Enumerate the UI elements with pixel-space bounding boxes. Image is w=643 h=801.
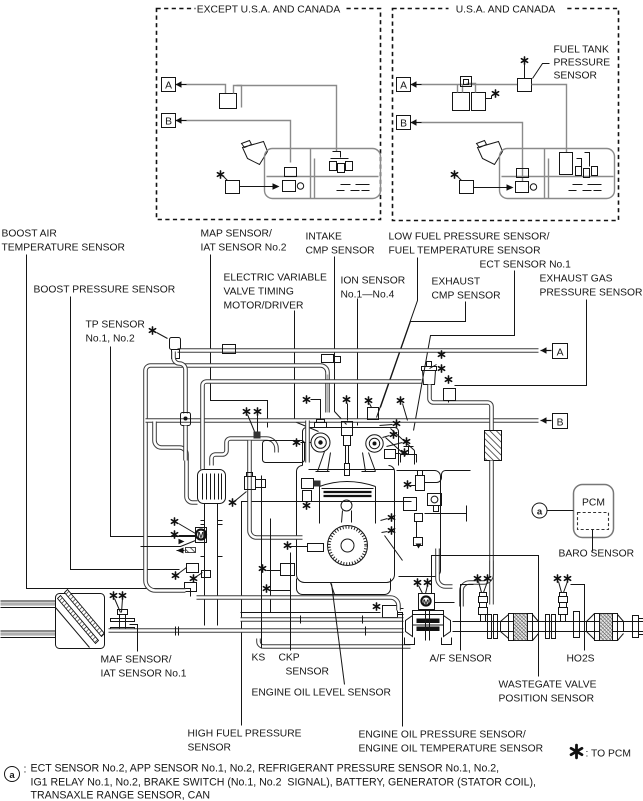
leader: electric VVT motor [295, 311, 319, 432]
oil pan [297, 579, 391, 595]
warm up catalytic converter (WU-TWC) [501, 615, 509, 639]
svg-text:INTAKE: INTAKE [306, 232, 343, 243]
svg-text:CMP SENSOR: CMP SENSOR [306, 246, 375, 257]
arrow at A [541, 347, 552, 353]
vacuum loop pipe around engine [203, 382, 422, 470]
svg-text:IAT SENSOR No.1: IAT SENSOR No.1 [101, 669, 187, 680]
engine oil pressure/temp sensor [373, 603, 379, 610]
arrow at B [541, 417, 552, 423]
node a circle [532, 503, 547, 518]
svg-text:B: B [400, 119, 407, 130]
leader: MAF sensor [130, 625, 138, 652]
svg-text:BOOST AIR: BOOST AIR [2, 229, 57, 240]
wastegate valve position sensor leader [432, 556, 539, 677]
charge pipe from manifold down to block [250, 441, 303, 538]
svg-text:BOOST PRESSURE SENSOR: BOOST PRESSURE SENSOR [34, 285, 176, 296]
arrow into B [176, 117, 187, 123]
svg-text:HO2S: HO2S [567, 654, 595, 665]
fuel filler neck (left box) [242, 141, 268, 165]
svg-text:SENSOR: SENSOR [286, 667, 330, 678]
intake pipe upper run [241, 617, 404, 622]
svg-text:M: M [423, 598, 429, 607]
intake stepped pipe from intercooler to manifold [212, 439, 277, 466]
ignition coil between cams [342, 422, 353, 436]
PCM module [574, 485, 614, 538]
intercooler [198, 470, 226, 504]
leader: exhaust gas pressure sensor [455, 300, 587, 386]
node box A [553, 344, 568, 359]
leader: CKP sensor [290, 553, 292, 651]
fitting bracket on A line [322, 355, 334, 363]
leader: ion sensor [357, 299, 359, 426]
canister vent hook [234, 86, 242, 108]
svg-text:ENGINE OIL TEMPERATURE SENSOR: ENGINE OIL TEMPERATURE SENSOR [359, 744, 544, 755]
vacuum hose under engine [241, 612, 381, 614]
svg-text:TEMPERATURE SENSOR: TEMPERATURE SENSOR [2, 243, 125, 254]
leader: engine oil level sensor [332, 584, 345, 685]
pipe from canister down to hatched block [430, 385, 492, 431]
svg-text:ELECTRIC VARIABLE: ELECTRIC VARIABLE [224, 273, 328, 284]
svg-text:IAT SENSOR No.2: IAT SENSOR No.2 [201, 243, 287, 254]
purge valve on A line [223, 345, 236, 354]
TP asterisk connector [149, 327, 155, 334]
svg-text:B: B [557, 418, 564, 429]
throttle asterisk cluster [171, 518, 177, 525]
knock sensor box [303, 491, 312, 502]
pressure sensor box on pipe [445, 376, 451, 383]
turbocharger housing [413, 611, 444, 615]
svg-text:CKP: CKP [279, 653, 300, 664]
leader: intake CMP sensor [335, 257, 347, 425]
purge pipe from canister to A [187, 85, 226, 94]
exhaust pipe after turbo [453, 622, 643, 632]
fuel tank pressure sensor on pipe [518, 79, 532, 92]
purge pipe to A [422, 84, 518, 86]
canister vent * valve [486, 96, 492, 99]
fuel level dashes (left box) [337, 185, 370, 191]
vac hose by block [270, 519, 272, 613]
MAP sensor body on charge pipe [245, 473, 266, 490]
main catalytic converter (TWC) [587, 614, 595, 640]
muffler inlet flange [633, 616, 639, 638]
charge air pipe to compressor [197, 598, 399, 611]
svg-text:CMP SENSOR: CMP SENSOR [432, 291, 501, 302]
leader: TP sensor [111, 347, 196, 537]
engine head cover [303, 428, 399, 466]
fuel rail components right of head [401, 447, 417, 463]
inline fitting on TP hose [181, 413, 191, 426]
to PCM legend [571, 745, 582, 758]
svg-text:EXCEPT U.S.A. AND CANADA: EXCEPT U.S.A. AND CANADA [197, 5, 341, 16]
cam cap stub and asterisk marks above head [315, 420, 327, 428]
svg-text:EXHAUST: EXHAUST [432, 277, 481, 288]
leader: high fuel pressure sensor [242, 502, 412, 726]
flange pair 1 [488, 615, 492, 639]
clean air pipe from MAF to turbo [109, 628, 404, 633]
A/F sensor leader [461, 585, 474, 651]
svg-text:a: a [537, 507, 543, 518]
svg-text:PRESSURE SENSOR: PRESSURE SENSOR [540, 288, 643, 299]
fresh air duct [1, 601, 56, 638]
flange pair 2 [546, 615, 550, 639]
dashed enclosure: U.S.A. AND CANADA [393, 9, 619, 221]
boost air temp sensor fitting [185, 583, 197, 592]
pipe from sensor to tank pump [532, 85, 567, 153]
fuel feed pipe from pump [425, 471, 471, 483]
fuel pump module (left box) [285, 168, 297, 177]
svg-text:ENGINE OIL PRESSURE SENSOR/: ENGINE OIL PRESSURE SENSOR/ [359, 730, 526, 741]
svg-text:TP SENSOR: TP SENSOR [86, 320, 145, 331]
charge pipe elbow to boost air temp sensor [146, 581, 186, 591]
oil filter fitting on block left [302, 479, 314, 489]
svg-text:A: A [400, 81, 407, 92]
high pressure fuel pump on engine [404, 481, 410, 488]
node B (left box) [162, 114, 176, 128]
svg-text:ECT SENSOR No.1: ECT SENSOR No.1 [480, 260, 572, 271]
air cleaner element diagonal strips [58, 596, 99, 644]
svg-text:a: a [9, 770, 15, 781]
leader: boost pressure sensor [71, 297, 180, 570]
node box B [553, 414, 568, 429]
svg-text:ION SENSOR: ION SENSOR [341, 276, 406, 287]
svg-text:WASTEGATE VALVE: WASTEGATE VALVE [499, 680, 597, 691]
second fitting on throttle tube [190, 575, 196, 582]
throttle neck below intercooler [201, 504, 223, 626]
svg-text:ECT SENSOR No.2, APP SENSOR No: ECT SENSOR No.2, APP SENSOR No.1, No.2, … [31, 763, 500, 775]
BARO sensor dashed box inside PCM [578, 513, 609, 530]
fuel tank (left box) [265, 149, 381, 199]
throttle position rack [177, 550, 185, 552]
engine right housing [397, 471, 441, 577]
leader: MAP sensor [211, 255, 268, 428]
hatched muffler block [485, 431, 502, 461]
to-PCM sensor box (right box) [451, 171, 457, 178]
pipe below hatched block to turbo [489, 461, 494, 605]
svg-text:MAP SENSOR/: MAP SENSOR/ [201, 229, 272, 240]
head right wedge housing [386, 429, 415, 465]
valves [316, 452, 376, 472]
wastegate link line [435, 602, 455, 604]
crankshaft ring gear [328, 526, 368, 566]
svg-text:SENSOR: SENSOR [554, 71, 598, 82]
TP hose down [174, 352, 186, 414]
exhaust cam sprocket [366, 435, 383, 452]
fuel vapor filter canister [422, 362, 437, 385]
leader: exhaust CMP sensor [381, 302, 466, 408]
boost pressure sensor box [172, 572, 178, 579]
node A (left box) [162, 78, 176, 92]
leader: ECT sensor No.1 [414, 271, 515, 431]
turbine wheels (dark) [417, 619, 440, 624]
fuel pulsation damper [428, 494, 442, 506]
svg-text:B: B [165, 117, 172, 128]
leader: engine oil pressure sensor [398, 613, 403, 727]
svg-text:M: M [198, 531, 205, 540]
air cleaner housing [56, 594, 105, 649]
footer note circle a [5, 767, 20, 782]
charge pipe upper [146, 366, 328, 413]
svg-text:KS: KS [252, 653, 266, 664]
asterisk marks at block right wall [388, 514, 394, 521]
svg-text:No.1, No.2: No.1, No.2 [86, 334, 135, 345]
svg-text:IG1 RELAY No.1, No.2, BRAKE SW: IG1 RELAY No.1, No.2, BRAKE SWITCH (No.1… [31, 777, 537, 789]
PCV pipe into head [305, 421, 310, 463]
piston crown and rings [320, 487, 376, 524]
svg-text:A/F SENSOR: A/F SENSOR [430, 654, 492, 665]
combustion chamber dome [320, 482, 376, 487]
charcoal canister (right box) [453, 93, 470, 111]
electric throttle motor M [196, 528, 207, 543]
svg-text:No.1—No.4: No.1—No.4 [341, 290, 395, 301]
svg-text:A: A [165, 81, 172, 92]
single flange before TWC [574, 612, 580, 638]
vent pipe from B to pump module [422, 123, 523, 182]
to-PCM sensor box (left box) [217, 171, 223, 178]
canister purge valve on top [458, 84, 476, 93]
HO2S probe [561, 615, 566, 622]
leader: low fuel pressure sensor [377, 258, 418, 418]
BARO leader [592, 530, 594, 552]
arrow into A [176, 81, 187, 87]
cylinder block outline [297, 466, 395, 583]
svg-text:HIGH FUEL PRESSURE: HIGH FUEL PRESSURE [188, 729, 302, 740]
dashed enclosure: EXCEPT U.S.A. AND CANADA [157, 9, 381, 220]
svg-text:: TO PCM: : TO PCM [586, 749, 631, 760]
svg-text:LOW FUEL PRESSURE SENSOR/: LOW FUEL PRESSURE SENSOR/ [389, 232, 550, 243]
wrist pin and conrod [341, 500, 352, 511]
pipe to A (purge line) [178, 348, 539, 353]
intake airbox on engine [263, 441, 305, 463]
svg-text:PCM: PCM [582, 498, 605, 509]
svg-text:EXHAUST GAS: EXHAUST GAS [540, 274, 613, 285]
svg-text:PRESSURE: PRESSURE [554, 58, 611, 69]
small box on right housing [404, 498, 417, 511]
wastegate actuator M [419, 594, 435, 610]
A/F sensor probe [481, 615, 486, 622]
svg-text:MAF SENSOR/: MAF SENSOR/ [101, 655, 172, 666]
oil drain pipe to turbo [259, 639, 411, 647]
svg-text:TRANSAXLE RANGE SENSOR, CAN: TRANSAXLE RANGE SENSOR, CAN [31, 790, 211, 801]
jet pump manifold (left box) [331, 152, 349, 159]
arrow line from sensor box to pump [474, 187, 507, 189]
line from a to PCM [547, 510, 574, 512]
charge pipe from left into intercooler [155, 422, 198, 503]
svg-text::: : [24, 764, 27, 776]
leader: boost air temperature sensor [27, 255, 191, 597]
svg-text:VALVE TIMING: VALVE TIMING [224, 287, 294, 298]
exhaust CMP sensor box on cam2 [365, 397, 371, 404]
TP purge connector under asterisk [170, 338, 181, 350]
node A (right box) [397, 78, 411, 92]
MAF sensor [110, 592, 116, 599]
svg-text:FUEL TANK: FUEL TANK [554, 45, 609, 56]
IAT No.2 fitting asterisks on elbow [243, 408, 249, 415]
canister tank pipe to jet pump [237, 86, 337, 152]
fuel pump module (right box) [517, 169, 529, 178]
svg-text:BARO SENSOR: BARO SENSOR [559, 549, 635, 560]
charcoal canister (left box) [220, 94, 237, 109]
pipe to B (vent line) [146, 418, 539, 423]
oil cooler box left of block [259, 565, 265, 572]
svg-text:U.S.A. AND CANADA: U.S.A. AND CANADA [456, 5, 556, 16]
charge pipe left vertical [143, 371, 148, 581]
pipe clamps [176, 616, 366, 636]
fuel tank (right box) [500, 149, 615, 199]
svg-text:POSITION SENSOR: POSITION SENSOR [499, 694, 595, 705]
vent pipe from B to tank pump [187, 121, 291, 163]
leader: KS [261, 476, 263, 649]
fuel filler neck (right box) [477, 141, 503, 165]
node B (right box) [397, 116, 411, 130]
HO2S leader [571, 585, 585, 651]
fuel hose junction [425, 506, 467, 522]
svg-text:ENGINE OIL LEVEL SENSOR: ENGINE OIL LEVEL SENSOR [252, 688, 391, 699]
CKP sensor on block [284, 542, 290, 549]
intake cam sprocket [311, 433, 330, 452]
svg-text:A: A [557, 348, 564, 359]
svg-text:MOTOR/DRIVER: MOTOR/DRIVER [224, 301, 304, 312]
svg-text:FUEL TEMPERATURE SENSOR: FUEL TEMPERATURE SENSOR [389, 246, 541, 257]
injector dropper [414, 514, 423, 546]
svg-text:SENSOR: SENSOR [188, 743, 232, 754]
asterisk arrows at exhaust cam [393, 420, 399, 427]
in-tank pump/sender assembly (right box) [560, 153, 573, 175]
arrow line from sensor box to pump [240, 186, 273, 188]
fuel level dashes (right box) [569, 185, 602, 191]
turbo mounting feet [405, 638, 452, 645]
oil feed pipes above turbo [438, 549, 453, 587]
